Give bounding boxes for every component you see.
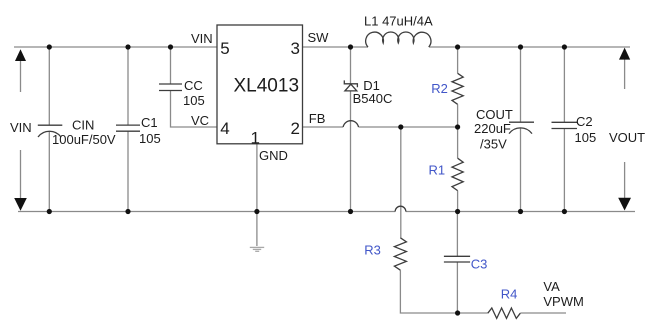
svg-text:2: 2 (291, 119, 300, 138)
svg-text:3: 3 (291, 39, 300, 58)
svg-text:R3: R3 (364, 243, 381, 258)
svg-text:105: 105 (139, 131, 161, 146)
svg-text:C2: C2 (576, 114, 593, 129)
svg-text:R2: R2 (431, 81, 448, 96)
svg-text:GND: GND (259, 148, 288, 163)
svg-text:C1: C1 (141, 115, 158, 130)
svg-text:VA: VA (543, 279, 560, 294)
svg-text:B540C: B540C (353, 91, 393, 106)
svg-text:R4: R4 (501, 286, 518, 301)
svg-text:105: 105 (183, 93, 205, 108)
svg-text:/35V: /35V (480, 137, 507, 152)
svg-text:R1: R1 (429, 163, 446, 178)
svg-text:4: 4 (220, 119, 229, 138)
svg-text:VPWM: VPWM (543, 294, 583, 309)
svg-text:5: 5 (220, 39, 229, 58)
svg-text:VIN: VIN (191, 31, 213, 46)
svg-text:100uF/50V: 100uF/50V (52, 132, 116, 147)
svg-text:SW: SW (308, 30, 330, 45)
svg-text:FB: FB (309, 111, 326, 126)
svg-text:COUT: COUT (476, 107, 513, 122)
svg-text:105: 105 (575, 130, 597, 145)
svg-text:C3: C3 (471, 257, 488, 272)
svg-text:VOUT: VOUT (609, 130, 645, 145)
svg-text:L1 47uH/4A: L1 47uH/4A (364, 14, 433, 29)
svg-text:CC: CC (184, 78, 203, 93)
svg-text:XL4013: XL4013 (234, 76, 300, 97)
svg-text:CIN: CIN (72, 118, 94, 133)
svg-text:220uF: 220uF (474, 121, 511, 136)
svg-text:VIN: VIN (10, 120, 32, 135)
svg-text:VC: VC (191, 113, 209, 128)
svg-text:1: 1 (251, 129, 260, 148)
